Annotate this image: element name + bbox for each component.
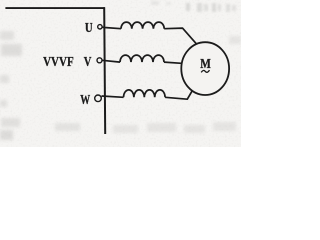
VVVF drive box right edge (bus)	[104, 7, 105, 134]
wire V bus to inductor	[102, 60, 120, 62]
motor M1 body	[181, 42, 229, 95]
motor AC tilde	[201, 70, 209, 72]
wire W bus to inductor	[102, 96, 124, 97]
svg-text:W: W	[80, 93, 90, 108]
svg-text:V: V	[84, 55, 92, 70]
smudge top-right bleed-through	[151, 1, 236, 12]
inductor L1 (U phase)	[121, 22, 164, 29]
svg-text:U: U	[85, 21, 93, 36]
inductor L3 (W phase)	[124, 90, 166, 97]
wire V inductor to motor	[164, 62, 182, 63]
label U	[85, 21, 93, 36]
smudge bottom band	[113, 36, 241, 133]
wire U bus to inductor	[102, 27, 121, 29]
motor label M	[200, 57, 211, 72]
svg-text:VVVF: VVVF	[43, 55, 74, 70]
terminal circle U	[98, 25, 102, 29]
terminal circle W	[95, 95, 102, 102]
wire W inductor to motor	[165, 91, 192, 99]
label W	[80, 93, 90, 108]
label V	[84, 55, 92, 70]
label VVVF	[43, 55, 74, 70]
svg-text:M: M	[200, 57, 211, 72]
VVVF drive box top edge	[5, 7, 105, 9]
terminal circle V	[97, 58, 102, 63]
smudge left band	[0, 31, 80, 140]
inductor L2 (V phase)	[120, 55, 164, 62]
wire U inductor to motor	[164, 28, 197, 44]
